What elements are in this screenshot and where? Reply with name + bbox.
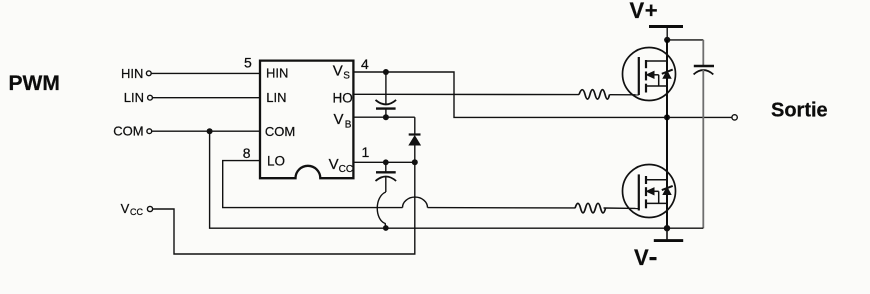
node VS junction bbox=[383, 69, 389, 75]
capacitor C2 VCC decoupling bbox=[376, 162, 397, 192]
wire VB out to bootstrap diode bbox=[353, 116, 414, 118]
wire COM to U1 bbox=[152, 130, 260, 132]
svg-text:HIN: HIN bbox=[266, 66, 288, 81]
svg-text:V: V bbox=[334, 111, 344, 128]
wire R1 to Q1 gate bbox=[610, 94, 639, 96]
svg-text:B: B bbox=[345, 119, 352, 130]
wire COM down and right to V- node bbox=[210, 131, 667, 228]
node VCC pin junction left bbox=[383, 159, 389, 165]
node output junction bbox=[664, 114, 670, 120]
svg-text:V: V bbox=[121, 201, 130, 216]
svg-text:LIN: LIN bbox=[266, 90, 286, 105]
capacitor C3 bus bbox=[667, 40, 714, 228]
wire HO to gate resistor R1 bbox=[353, 93, 579, 95]
op-amp U1 driver IC body bbox=[260, 61, 353, 179]
node V+ junction bbox=[664, 37, 670, 43]
wire LO out, down and right to gate resistor R2 bbox=[223, 161, 575, 208]
wire HIN to U1 bbox=[151, 72, 260, 74]
wire LIN to U1 bbox=[153, 97, 260, 99]
svg-text:COM: COM bbox=[113, 123, 143, 138]
wire V+ node to C3 bbox=[667, 39, 703, 41]
wire LO hop over VCC riser bbox=[403, 197, 428, 208]
svg-text:4: 4 bbox=[361, 56, 369, 72]
svg-text:V: V bbox=[634, 245, 649, 270]
svg-text:Sortie: Sortie bbox=[771, 100, 828, 122]
terminal COM bbox=[113, 123, 151, 138]
wire VCC pin out bbox=[353, 161, 414, 163]
svg-text:V: V bbox=[333, 63, 343, 80]
terminal VCC bbox=[121, 201, 153, 217]
svg-text:1: 1 bbox=[362, 144, 370, 160]
node VCC pin junction right bbox=[412, 159, 418, 165]
diode D1 bootstrap bbox=[409, 135, 421, 146]
wire C2 hop around LO line bbox=[377, 192, 386, 228]
node C2 to COM junction bbox=[383, 225, 389, 231]
node VB junction bbox=[383, 114, 389, 120]
resistor R1 bbox=[579, 90, 610, 100]
terminal LIN bbox=[124, 90, 153, 105]
terminal HIN bbox=[121, 66, 151, 81]
svg-text:HIN: HIN bbox=[121, 66, 143, 81]
node V- junction bbox=[664, 225, 670, 231]
svg-text:5: 5 bbox=[244, 54, 252, 70]
wire V- stub bbox=[666, 228, 668, 239]
node COM junction bbox=[207, 128, 213, 134]
svg-text:HO: HO bbox=[333, 90, 353, 105]
svg-text:LO: LO bbox=[267, 153, 285, 168]
wire VS out to right and down to output bbox=[353, 72, 732, 117]
power rail V- bar bbox=[654, 239, 683, 242]
svg-text:V: V bbox=[329, 156, 339, 173]
transistor Q1 high-side MOSFET bbox=[623, 48, 676, 101]
wire VCC supply run bbox=[153, 162, 415, 254]
svg-text:8: 8 bbox=[243, 145, 251, 161]
svg-text:V+: V+ bbox=[630, 0, 659, 23]
svg-text:CC: CC bbox=[339, 164, 353, 175]
wire half-bridge main vertical bbox=[666, 40, 668, 228]
wire diode branch down bbox=[414, 117, 416, 134]
capacitor C1 bootstrap bbox=[376, 72, 397, 117]
svg-text:LIN: LIN bbox=[124, 90, 144, 105]
pin label VCC bbox=[329, 156, 353, 175]
transistor Q2 low-side MOSFET bbox=[623, 165, 676, 218]
svg-text:CC: CC bbox=[130, 207, 143, 217]
svg-text:S: S bbox=[343, 70, 350, 81]
wire R2 to Q2 gate bbox=[604, 207, 639, 210]
wire diode to VCC pin node bbox=[414, 145, 416, 162]
terminal Sortie bbox=[732, 100, 828, 122]
wire V+ stub bbox=[666, 28, 668, 40]
svg-text:PWM: PWM bbox=[9, 72, 60, 95]
power rail V+ bar bbox=[649, 25, 683, 28]
pin label VS bbox=[333, 63, 351, 82]
resistor R2 bbox=[575, 203, 606, 213]
svg-text:COM: COM bbox=[265, 124, 295, 139]
pin label VB bbox=[334, 111, 352, 130]
